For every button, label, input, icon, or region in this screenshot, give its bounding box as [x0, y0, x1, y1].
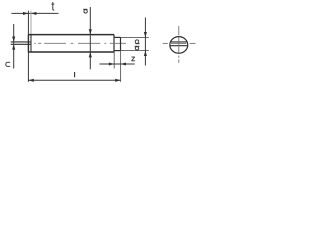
slot bottom line (inside body): [30, 35, 32, 52]
arrowhead dp lower: [144, 51, 147, 56]
label z: [132, 57, 135, 61]
label dp (rotated): [135, 40, 140, 50]
arrowhead z left: [109, 62, 114, 65]
end view circle: [170, 37, 188, 54]
arrowhead l left: [28, 79, 33, 82]
dog point outline: [114, 36, 121, 38]
dimension line l (length): [28, 79, 120, 81]
dimension line z: [100, 63, 135, 65]
z extension line left: [113, 52, 115, 69]
arrowhead d upper: [89, 29, 92, 34]
dimension line t (slot depth): [11, 12, 58, 14]
screw body outline: [28, 34, 114, 36]
label d (rotated): [83, 9, 87, 13]
arrowhead l right: [115, 79, 120, 82]
dimension line dp: [144, 18, 146, 66]
dimension line n (slot width): [13, 24, 15, 69]
slot bottom extension line (above body): [30, 11, 32, 35]
arrowhead n upper: [12, 37, 15, 42]
arrowhead z right: [121, 62, 126, 65]
dp extension lines: [121, 36, 149, 38]
screw axis centerline (dash-dot): [34, 42, 126, 44]
arrowhead d lower: [89, 52, 92, 57]
label n (rotated): [6, 62, 10, 66]
arrowhead t right: [31, 12, 36, 15]
end view horizontal centerline (dash-dot): [163, 42, 196, 44]
arrowhead t left: [23, 12, 28, 15]
arrowhead dp upper: [144, 32, 147, 37]
label l: [74, 72, 76, 77]
label t: [51, 2, 54, 10]
slot edge lines (side view): [11, 41, 31, 43]
arrowhead n lower: [12, 44, 15, 49]
end view vertical centerline (dash-dot): [178, 26, 180, 63]
z / l shared extension line right: [120, 51, 122, 82]
dimension line d: [89, 7, 91, 69]
screw left face line / extension line: [27, 11, 29, 35]
